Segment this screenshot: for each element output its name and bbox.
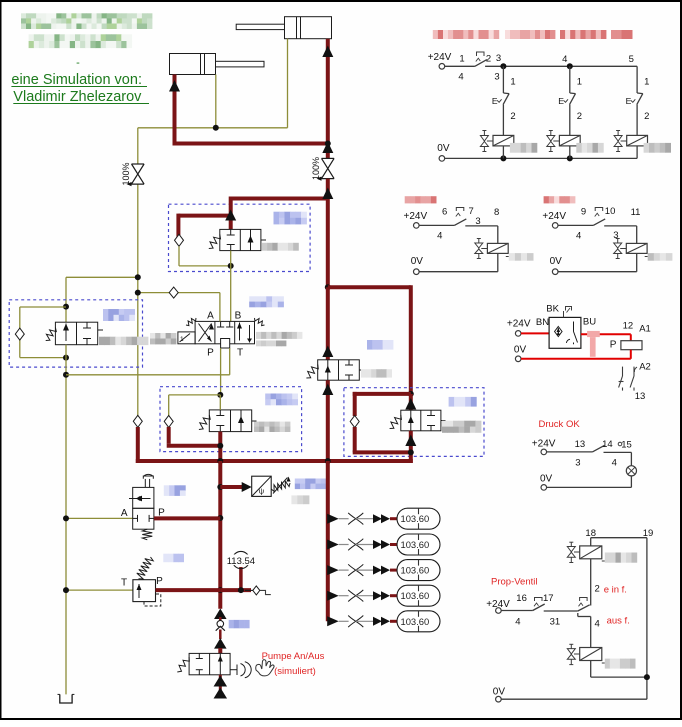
label V-right censored gray <box>442 421 481 433</box>
labels 12 A1 <box>623 321 651 335</box>
junction arrow upper valve <box>225 210 236 221</box>
wire red sensor to coil A1 <box>581 333 631 335</box>
wire maroon below mid valve <box>326 380 330 463</box>
arrow riser below 100% <box>322 188 333 200</box>
svg-text:12: 12 <box>623 321 634 332</box>
svg-text:2: 2 <box>595 584 600 595</box>
wire olive y277 branch <box>66 274 141 280</box>
svg-text:+24V: +24V <box>532 438 556 449</box>
changeover contact to 2/4 <box>578 598 591 648</box>
label Druck OK <box>539 419 581 430</box>
wire olive relief T <box>63 587 133 593</box>
indicator lamp 15 <box>626 452 636 487</box>
wire maroon into pump <box>218 648 222 653</box>
orifice on A line <box>169 287 178 298</box>
pump suction arrows <box>214 675 228 699</box>
label V-left censored <box>103 309 135 321</box>
check plug diamond <box>245 586 271 595</box>
svg-text:-: - <box>76 57 80 69</box>
branch 2 throttle <box>327 539 397 551</box>
gauge 113.54 <box>227 551 255 593</box>
svg-text:BK: BK <box>546 304 559 315</box>
label Y-ausf censored <box>602 659 636 669</box>
svg-text:+24V: +24V <box>404 211 428 222</box>
relay coil circuit 6 <box>487 226 508 272</box>
label V-upper censored gray <box>262 243 299 251</box>
arrow below mid valve <box>322 384 333 396</box>
svg-text:+24V: +24V <box>507 319 531 330</box>
svg-text:4: 4 <box>437 231 442 242</box>
svg-text:A2: A2 <box>639 362 651 373</box>
terminal +24V prop circuit <box>486 599 510 614</box>
label Prop-Ventil <box>491 577 537 588</box>
label V-right censored blue <box>449 397 477 407</box>
node relief branch <box>217 587 223 593</box>
check valve right box <box>350 416 359 428</box>
wire maroon to pressure sensor <box>220 482 251 492</box>
node riser y287 and branch to right block <box>325 284 411 394</box>
svg-text:BN: BN <box>536 317 549 328</box>
svg-text:0V: 0V <box>411 256 424 267</box>
link eine Simulation von: <box>11 72 147 88</box>
svg-text:4: 4 <box>458 72 463 83</box>
wire red 0V rail sensor circuit <box>514 345 631 362</box>
svg-text:+24V: +24V <box>428 52 452 63</box>
relay coil Y-einf <box>580 546 602 559</box>
wire rail 0V circuit1 <box>437 143 637 161</box>
pressure switch actuator glyph <box>564 307 572 318</box>
svg-text:A1: A1 <box>639 323 651 334</box>
wire coil Y-ausf to 0V node <box>591 661 650 681</box>
svg-text:103.60: 103.60 <box>401 539 430 550</box>
arrow above V-right <box>405 398 416 410</box>
svg-text:2: 2 <box>510 111 515 122</box>
label sensor censored blue <box>295 479 327 490</box>
label V-lower censored blue <box>265 394 298 406</box>
label coil circuit 9 censored <box>645 253 673 261</box>
svg-text:100%: 100% <box>121 162 131 185</box>
svg-text:2: 2 <box>644 111 649 122</box>
display 103.60 #5 <box>397 611 440 632</box>
wire maroon riser 287-346 <box>326 287 330 360</box>
wire maroon relief P <box>156 588 221 592</box>
branch 4 throttle <box>327 590 397 602</box>
branch 1 throttle <box>327 513 397 525</box>
svg-text:4: 4 <box>612 457 617 468</box>
circuit 6-7 censored title <box>405 196 437 203</box>
svg-text:E: E <box>492 96 498 106</box>
label coil circuit 6 censored <box>506 253 534 261</box>
svg-text:3: 3 <box>475 216 480 227</box>
flow control valve 100% left <box>121 162 144 186</box>
svg-text:9: 9 <box>581 207 586 218</box>
svg-text:16: 16 <box>516 593 527 604</box>
valve V-left body <box>46 322 103 345</box>
wire olive hand valve A <box>63 515 133 521</box>
hand valve labels <box>121 508 165 520</box>
svg-text:E: E <box>626 96 632 106</box>
svg-text:ψ: ψ <box>259 487 264 496</box>
node valve bottom y266 <box>228 263 234 269</box>
node hand valve branch <box>217 515 223 521</box>
prop valve springs <box>186 318 265 326</box>
branch 5 throttle <box>327 616 397 628</box>
svg-text:B: B <box>235 311 242 322</box>
wire maroon relief to check plug <box>220 588 251 592</box>
wire olive upper bypass to valve bottom <box>179 246 231 266</box>
wire maroon upper bypass arm <box>178 214 232 237</box>
label Y-einf censored <box>602 553 637 563</box>
svg-text:+24V: +24V <box>542 211 566 222</box>
svg-text:Vladimir Zhelezarov: Vladimir Zhelezarov <box>13 89 142 105</box>
wire olive x138 down <box>137 128 139 416</box>
svg-text:Druck OK: Druck OK <box>539 419 581 430</box>
svg-text:0V: 0V <box>493 687 506 698</box>
relay coil K3 <box>627 135 648 158</box>
terminal 0V circuit 9 <box>550 256 637 275</box>
title dash <box>76 57 80 69</box>
arrow riser above 100% <box>322 142 333 154</box>
wire maroon cyl2 feed riser <box>326 39 330 159</box>
label pump check censored blue <box>229 620 250 628</box>
svg-text:14: 14 <box>602 439 613 450</box>
tank symbol left <box>58 694 75 703</box>
svg-text:103.60: 103.60 <box>401 513 430 524</box>
wire olive P-port down <box>220 348 222 395</box>
arrow above mid valve <box>322 346 333 358</box>
svg-text:P: P <box>156 576 163 587</box>
node 4 label <box>562 54 567 65</box>
switch 6-7 <box>419 206 499 242</box>
wire maroon V-lower bottom to main <box>217 432 223 463</box>
prop valve port labels <box>207 311 243 359</box>
terminal 0V circuit 6 <box>411 256 498 275</box>
wire coil to contact 2 <box>590 559 592 606</box>
circuit1 censored title <box>433 30 633 39</box>
label sensor censored gray <box>291 495 309 504</box>
suppressor diode branch 2 <box>547 131 560 152</box>
node riser y143 <box>325 141 331 147</box>
wire olive x66 main down <box>63 372 69 695</box>
labels BK BN BU <box>536 304 596 329</box>
svg-text:1: 1 <box>510 77 515 88</box>
label V-upper censored blue <box>274 212 307 225</box>
prop solenoid 1 box <box>178 332 195 344</box>
wire top prop circuit <box>591 538 647 700</box>
relay coil P <box>610 334 642 359</box>
svg-text:10: 10 <box>605 206 616 217</box>
svg-text:4: 4 <box>595 619 600 630</box>
wire maroon V-right bottom <box>408 431 414 463</box>
terminal +24V circuit1 <box>428 52 452 69</box>
svg-text:13: 13 <box>635 391 646 402</box>
arrow cyl1 feed <box>169 80 180 92</box>
flow control valve 100% right <box>311 157 334 181</box>
selection box right valve <box>344 388 484 457</box>
terminal 0V prop circuit <box>493 687 647 703</box>
wire rail top circuit1 <box>500 63 637 69</box>
label V-mid censored blue <box>367 340 393 350</box>
relief valve labels <box>121 576 163 589</box>
wire maroon distribution riser <box>326 461 330 621</box>
label prop censored gray right <box>256 332 302 346</box>
svg-text:8: 8 <box>494 207 499 218</box>
check valve upper box <box>175 234 184 246</box>
node feed y394 <box>408 391 414 397</box>
wire red +24V to sensor <box>521 332 549 334</box>
wire maroon riser 184-287 <box>326 179 330 288</box>
wire maroon horizontal y143.5 <box>173 142 328 146</box>
display 103.60 #4 <box>397 585 440 606</box>
switch S1 <box>445 52 504 83</box>
terminal +24V circuit 9 <box>542 211 566 228</box>
svg-text:4: 4 <box>562 54 567 65</box>
wire maroon pump riser <box>218 461 222 609</box>
wire maroon branch y198 to upper valve <box>231 197 328 230</box>
node x66-306 <box>63 304 69 310</box>
label coil K3 censored <box>644 143 671 153</box>
wire maroon lower bypass to bottom <box>167 427 221 446</box>
wire maroon right bypass arm <box>353 392 411 416</box>
arrow above pump <box>214 638 227 649</box>
svg-text:1: 1 <box>644 77 649 88</box>
svg-text:A: A <box>207 311 214 322</box>
valve V-left check bypass <box>15 307 66 358</box>
suppressor diode Y-einf <box>567 542 579 562</box>
relay coil Y-ausf <box>580 648 602 661</box>
label hand valve censored blue <box>164 485 186 496</box>
svg-text:1: 1 <box>459 54 464 65</box>
valve V-mid body <box>306 360 364 380</box>
svg-text:6: 6 <box>442 207 447 218</box>
relay coil K2 <box>559 135 580 158</box>
label Pumpe An/Aus <box>262 651 325 677</box>
circuit 9-10 censored title <box>544 196 576 203</box>
wire maroon V-right top port <box>409 394 413 410</box>
switch 9-10 <box>558 206 640 242</box>
limit switch branch 1 <box>492 66 516 135</box>
wire olive valve bottom to B port <box>230 251 232 322</box>
labels 18 19 <box>585 528 653 539</box>
svg-text:0V: 0V <box>437 143 450 154</box>
svg-text:0V: 0V <box>514 345 527 356</box>
wire olive x66 upper <box>65 277 67 322</box>
suppressor diode circuit 9 <box>614 239 627 259</box>
svg-text:2: 2 <box>486 54 491 65</box>
prop valve U1 body <box>195 321 254 348</box>
wire maroon right bypass bottom <box>353 427 411 452</box>
pink highlight horizontal <box>587 331 600 337</box>
node 5 label <box>629 54 634 65</box>
selection box upper valve <box>169 204 311 271</box>
svg-text:15: 15 <box>621 439 632 450</box>
svg-text:113.54: 113.54 <box>227 556 255 567</box>
wire maroon hand valve P <box>154 516 220 520</box>
svg-text:4: 4 <box>515 617 520 628</box>
wire olive T-port branch <box>66 348 230 375</box>
branch 3 throttle <box>327 564 397 576</box>
node x66-357 and wire down <box>63 345 69 375</box>
terminal +24V Druck <box>532 438 556 454</box>
check valve lower box <box>164 415 173 427</box>
label coil K2 censored <box>576 143 603 153</box>
label prop censored gray left <box>150 333 176 344</box>
suppressor diode branch 1 <box>480 131 493 152</box>
label relief censored blue <box>163 554 184 563</box>
suppressor diode Y-ausf <box>567 644 579 664</box>
wire maroon cyl1 feed <box>173 75 177 146</box>
display 103.60 #1 <box>397 508 440 529</box>
hand valve mushroom button <box>143 474 153 487</box>
arrow cyl2 feed <box>322 46 333 58</box>
svg-text:5: 5 <box>629 54 634 65</box>
title censored line 1 <box>21 13 152 29</box>
wire maroon x138 to main <box>133 415 142 463</box>
svg-text:T: T <box>237 348 243 359</box>
wire maroon main horizontal y461 <box>136 459 413 463</box>
display 103.60 #2 <box>397 534 440 555</box>
title censored line 2 <box>29 34 133 48</box>
circuit pressure-switch terminal +24V <box>507 319 531 337</box>
suppressor diode branch 3 <box>614 131 627 152</box>
hand valve spring <box>142 529 152 540</box>
svg-text:3: 3 <box>494 72 499 83</box>
label V-left gray censored <box>99 337 148 345</box>
svg-text:aus f.: aus f. <box>607 616 630 627</box>
svg-text:Prop-Ventil: Prop-Ventil <box>491 577 537 588</box>
svg-text:0V: 0V <box>540 473 553 484</box>
link Vladimir Zhelezarov <box>13 89 149 105</box>
svg-text:2: 2 <box>577 111 582 122</box>
svg-text:0V: 0V <box>550 256 563 267</box>
arrow below V-right <box>405 435 416 447</box>
relay coil K1 <box>493 135 514 158</box>
svg-text:E: E <box>558 96 564 106</box>
svg-text:1: 1 <box>577 77 582 88</box>
svg-text:eine Simulation von:: eine Simulation von: <box>11 72 142 88</box>
wire olive cyl2 left-port <box>287 39 289 128</box>
wire olive A-port branch <box>135 290 220 322</box>
label prop censored blue <box>249 296 284 307</box>
hand valve 3/2 body <box>129 487 154 529</box>
svg-text:T: T <box>121 578 127 589</box>
svg-text:A: A <box>121 508 128 519</box>
pump check valve <box>216 617 225 639</box>
label V-mid censored gray <box>361 369 392 377</box>
svg-text:P: P <box>207 348 214 359</box>
terminal 0V Druck <box>540 473 631 490</box>
switch 13-14 Druck <box>547 439 632 469</box>
svg-text:31: 31 <box>550 617 561 628</box>
wire olive horizontal y128 <box>138 127 288 129</box>
svg-text:4: 4 <box>576 231 581 242</box>
svg-text:1: 1 <box>180 336 184 343</box>
wire olive lower bypass arm <box>169 395 221 416</box>
label coil K1 censored <box>510 143 537 153</box>
relay coil circuit 9 <box>626 226 647 272</box>
limit switch branch 2 <box>558 66 582 135</box>
switch 16-17 <box>501 593 578 628</box>
svg-text:103.60: 103.60 <box>401 565 430 576</box>
label V-lower censored gray <box>254 422 290 432</box>
svg-text:100%: 100% <box>311 157 321 180</box>
pink highlight vertical <box>590 337 596 357</box>
valve V-right body <box>390 410 446 431</box>
node main x328 <box>325 458 331 464</box>
svg-text:P: P <box>610 340 617 351</box>
suppressor diode circuit 6 <box>475 239 488 259</box>
svg-text:103.60: 103.60 <box>401 590 430 601</box>
cylinder 2 (top right) <box>236 17 331 39</box>
arrow pump riser <box>214 609 227 620</box>
svg-text:BU: BU <box>583 317 596 328</box>
cylinder 1 (left) <box>170 54 265 75</box>
hand cursor icon <box>256 660 274 676</box>
svg-text:3: 3 <box>496 53 501 64</box>
node sensor branch <box>217 484 223 490</box>
node main x220 <box>217 458 223 464</box>
labels 4 ausf <box>595 616 630 630</box>
svg-text:Pumpe An/Aus: Pumpe An/Aus <box>262 651 325 662</box>
pressure switch B1 box <box>549 317 581 348</box>
selection box lower valve <box>160 387 302 452</box>
svg-text:7: 7 <box>469 206 474 217</box>
svg-text:11: 11 <box>631 207 641 218</box>
label A2 and contact 13 <box>619 362 651 403</box>
svg-text:(simuliert): (simuliert) <box>274 666 316 677</box>
wire olive cyl1 rod-port down <box>215 75 217 128</box>
selection box left valve <box>9 300 142 367</box>
limit switch branch 3 <box>626 66 650 135</box>
relief valve body <box>133 557 161 606</box>
node cyl1 return junction <box>213 125 219 131</box>
svg-text:e in f.: e in f. <box>604 585 627 596</box>
svg-text:13: 13 <box>575 439 586 450</box>
svg-text:103.60: 103.60 <box>401 616 430 627</box>
pressure sensor B1 <box>252 476 291 496</box>
node P junction y395 <box>217 392 223 398</box>
wire olive valve top port <box>219 395 221 410</box>
terminal +24V circuit 6 <box>404 211 428 228</box>
pump valve body <box>177 653 251 677</box>
svg-text:17: 17 <box>543 593 554 604</box>
svg-text:3: 3 <box>575 457 580 468</box>
valve V-upper body <box>209 229 266 250</box>
labels 2 einf <box>595 584 627 596</box>
display 103.60 #3 <box>397 560 440 581</box>
valve V-lower body <box>199 410 257 432</box>
